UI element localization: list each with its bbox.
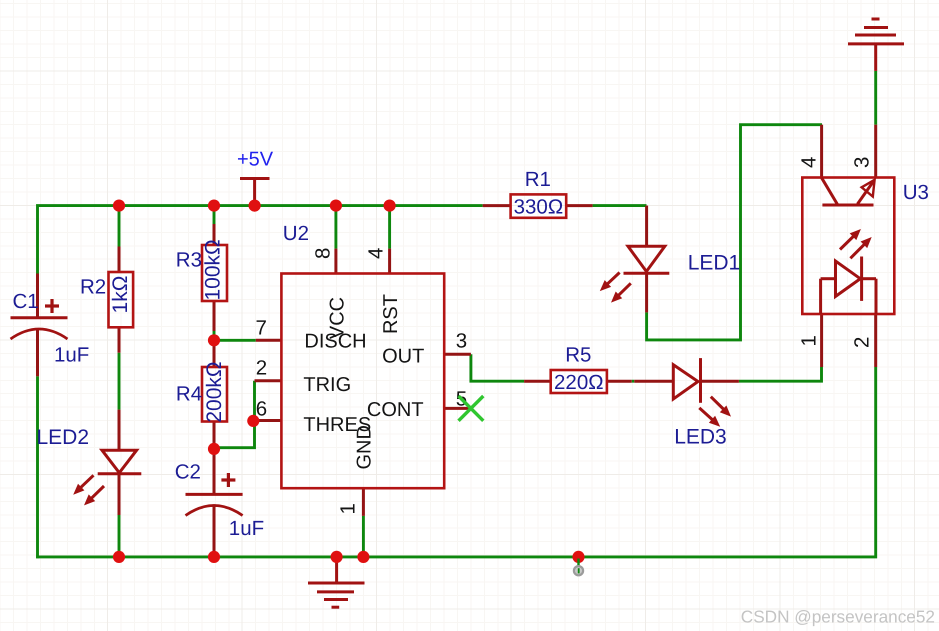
wire: rail to R3 top <box>213 206 216 224</box>
LED LED2 <box>37 426 142 505</box>
svg-text:3: 3 <box>851 157 874 168</box>
U3 pin 2 stub <box>874 314 877 367</box>
svg-text:R1: R1 <box>525 168 551 191</box>
resistor R5 <box>551 344 607 395</box>
U2 pin 3 stub <box>444 353 471 356</box>
node junction dot 7 <box>247 415 259 427</box>
wire: R1 right lead <box>566 204 592 207</box>
wire: earth to U3 pin 3 <box>874 71 877 125</box>
wire: R4 top lead <box>213 340 216 367</box>
node junction dot 3 <box>249 200 261 212</box>
U2 pin 7 stub <box>256 339 282 342</box>
wire: rail drop to U2 pin 8 <box>334 206 337 249</box>
wire: LED3 cathode to U3 pin 1 <box>739 367 822 381</box>
svg-text:2: 2 <box>851 337 874 348</box>
wire: R1 to LED1 top <box>593 204 647 207</box>
wire: C1 bottom to ground rail <box>36 376 39 558</box>
wire: C1 bottom red stem <box>36 329 39 376</box>
U3 pin 3 stub <box>874 125 877 178</box>
svg-text:4: 4 <box>365 248 388 259</box>
svg-text:RST: RST <box>380 294 402 334</box>
node junction dot 5 <box>384 200 396 212</box>
svg-text:CSDN @perseverance52: CSDN @perseverance52 <box>741 607 935 627</box>
wire: LED2 anode lead <box>118 410 121 451</box>
node junction dot 10 <box>208 551 220 563</box>
node junction dot 2 <box>208 200 220 212</box>
wire: R3 bottom to node DISCH <box>213 331 216 340</box>
svg-text:4: 4 <box>798 157 821 168</box>
svg-text:1uF: 1uF <box>54 344 89 367</box>
power +5V <box>237 149 274 206</box>
wire: rail to R2 top <box>118 206 121 247</box>
svg-text:U2: U2 <box>283 222 309 245</box>
svg-text:1: 1 <box>798 335 821 346</box>
wire: R4 bottom nub <box>213 443 216 449</box>
svg-text:1: 1 <box>337 503 360 514</box>
op-amp/timer U2 (555) <box>255 222 467 515</box>
node junction dot 4 <box>330 200 342 212</box>
resistor R4 <box>176 361 227 422</box>
earth ground (top right) <box>848 19 904 44</box>
U2 pin 4 stub <box>388 249 391 274</box>
resistor R1 <box>511 168 567 219</box>
wire: node DISCH to pin 7 <box>214 339 256 342</box>
resistor R2 <box>80 272 133 327</box>
wire: R3 top lead <box>213 224 216 245</box>
wire: R2 top lead <box>118 247 121 273</box>
svg-text:TRIG: TRIG <box>303 374 351 396</box>
node junction dot 13 <box>572 551 584 563</box>
node junction dot 9 <box>113 551 125 563</box>
wire: bottom ground stem <box>335 557 338 583</box>
wire: R5 to LED3 nub <box>632 380 635 383</box>
ground (bottom) <box>308 583 365 607</box>
svg-text:8: 8 <box>312 248 335 259</box>
node: gray port marker <box>577 559 579 567</box>
svg-text:1uF: 1uF <box>229 517 264 540</box>
wire: R4 bottom lead <box>213 422 216 444</box>
U2 pin 8 stub <box>334 249 337 274</box>
svg-text:C2: C2 <box>175 461 201 484</box>
svg-text:OUT: OUT <box>382 346 424 368</box>
wire: +5V top rail and left drop to C1 <box>38 206 483 274</box>
wire: LED1 bottom elbow to U3 pin 4 <box>647 125 822 340</box>
wire: R4/C2 node to TRIG/THRES tie <box>214 381 255 448</box>
svg-text:LED3: LED3 <box>674 426 727 449</box>
wire: LED2 cathode to ground rail <box>118 515 121 557</box>
wire: U2 pin 3 jog down to R5 <box>471 354 524 381</box>
node junction dot 12 <box>357 551 369 563</box>
wire: LED2 cathode lead <box>118 474 121 515</box>
node junction dot 11 <box>331 551 343 563</box>
svg-text:1kΩ: 1kΩ <box>109 276 132 314</box>
U3 pin 1 stub <box>820 314 823 367</box>
wire: C2 top stem <box>213 449 216 495</box>
wire: R3 bottom lead <box>213 301 216 331</box>
U3 light arrows <box>840 234 856 250</box>
svg-text:U3: U3 <box>903 181 929 204</box>
U3 internal LED <box>836 261 861 296</box>
node junction dot 8 <box>208 443 220 455</box>
svg-text:R4: R4 <box>176 383 202 406</box>
wire: U2 pin 1 to ground rail <box>362 516 365 557</box>
svg-text:+5V: +5V <box>237 149 274 171</box>
svg-text:3: 3 <box>456 330 467 353</box>
wire: R2 bottom to LED2 anode <box>118 353 121 410</box>
LED LED1 <box>600 246 740 302</box>
wire: LED3 anode lead <box>634 380 673 383</box>
wire: R2 bottom lead <box>118 327 121 352</box>
U2 pin 1 stub <box>362 488 365 516</box>
resistor R3 <box>176 239 227 301</box>
svg-text:2: 2 <box>256 357 267 380</box>
wire: rail drop to U2 pin 4 <box>388 206 391 249</box>
U2 pin 2 stub <box>255 379 282 382</box>
capacitor C1 <box>11 290 90 367</box>
U2 pin 6 stub <box>255 419 282 422</box>
svg-text:200kΩ: 200kΩ <box>203 361 226 422</box>
svg-text:VCC: VCC <box>326 297 348 339</box>
U3 pin 4 stub <box>820 125 823 178</box>
wire: LED1 anode lead <box>645 206 648 247</box>
node junction dot 1 <box>113 200 125 212</box>
svg-text:100kΩ: 100kΩ <box>202 239 225 300</box>
wire: C2 bottom stem <box>213 504 216 557</box>
svg-text:CONT: CONT <box>367 399 424 421</box>
svg-text:LED2: LED2 <box>37 426 90 449</box>
svg-text:LED1: LED1 <box>688 252 741 275</box>
svg-text:R5: R5 <box>565 344 591 367</box>
svg-text:R2: R2 <box>80 276 106 299</box>
wire: R1 left lead <box>483 204 511 207</box>
U2 pin 5 stub <box>444 407 471 410</box>
U3 phototransistor <box>822 204 873 207</box>
wire: LED3 cathode lead <box>701 380 739 383</box>
svg-text:220Ω: 220Ω <box>554 371 604 394</box>
svg-text:7: 7 <box>255 317 266 340</box>
svg-text:GND: GND <box>353 425 375 469</box>
svg-text:330Ω: 330Ω <box>514 196 564 219</box>
optocoupler U3 <box>798 157 929 348</box>
svg-text:C1: C1 <box>13 290 39 313</box>
wire: C1 top red stem <box>36 274 39 318</box>
no-connect X on pin 5 <box>459 396 484 421</box>
svg-text:R3: R3 <box>176 249 202 272</box>
wire: bottom ground rail and riser to U3 pin 2 <box>36 367 876 557</box>
wire: earth ground stem <box>874 44 877 71</box>
node junction dot 6 <box>208 334 220 346</box>
LED LED3 <box>673 358 731 448</box>
capacitor C2 <box>175 461 264 541</box>
wire: LED1 cathode lead <box>645 273 648 312</box>
wire: R5 left lead <box>524 380 551 383</box>
wire: R5 right lead <box>607 380 632 383</box>
